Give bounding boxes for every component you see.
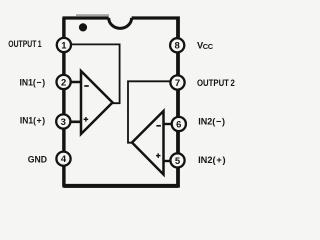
pin 2 circle	[57, 75, 71, 89]
pin 6 circle	[172, 117, 186, 131]
svg-text:5: 5	[175, 156, 181, 167]
svg-text:2: 2	[61, 77, 66, 88]
label IN2(+) (pin 5)	[198, 155, 226, 165]
scan shadow artifact above top edge	[76, 14, 109, 16]
wire U1 output feedback loop to pin 1	[70, 44, 120, 103]
svg-text:7: 7	[175, 78, 180, 89]
svg-text:IN2( − ): IN2( − )	[198, 116, 225, 126]
pin 7 circle	[170, 75, 184, 89]
label OUTPUT 1 (pin 1)	[8, 39, 41, 49]
wire pin5 to U2 non-inverting input	[164, 160, 172, 162]
svg-text:6: 6	[176, 119, 181, 130]
label IN2(-) (pin 6)	[198, 116, 225, 126]
svg-text:IN1( + ): IN1( + )	[20, 115, 45, 125]
wire pin6 to U2 inverting input	[164, 123, 172, 125]
pin 8 circle	[170, 38, 184, 52]
IC package body U1 (DIP-8 outline with top notch)	[64, 18, 179, 186]
pin 1 dot indicator	[79, 23, 87, 31]
wire pin2 to U1 inverting input	[64, 81, 81, 84]
U2 plus input marker	[156, 153, 161, 158]
wire U2 output feedback loop to pin 7	[128, 81, 172, 142]
svg-text:8: 8	[175, 41, 180, 52]
svg-text:3: 3	[61, 117, 66, 128]
label OUTPUT 2 (pin 7)	[197, 78, 235, 88]
svg-text:4: 4	[61, 154, 67, 165]
op-amp U1 (triangle pointing right)	[81, 71, 113, 134]
U1 minus input marker	[84, 85, 89, 87]
svg-text:IN2( + ): IN2( + )	[198, 155, 226, 165]
svg-text:VCC: VCC	[197, 40, 214, 51]
svg-text:1: 1	[61, 40, 67, 51]
wire right pin rail	[176, 18, 179, 186]
notch (pin-1 end indicator arc)	[109, 18, 132, 28]
svg-text:OUTPUT 1: OUTPUT 1	[8, 39, 41, 49]
op-amp U2 (triangle pointing left)	[132, 111, 164, 175]
svg-text:GND: GND	[28, 154, 47, 164]
label IN1(-) (pin 2)	[20, 77, 46, 87]
U2 minus input marker	[156, 125, 161, 127]
wire left pin rail	[62, 18, 65, 186]
label IN1(+) (pin 3)	[20, 115, 45, 125]
pin 1 circle	[57, 38, 71, 52]
label GND (pin 4)	[28, 154, 47, 164]
label VCC (pin 8)	[197, 40, 214, 51]
pin 4 circle	[56, 152, 70, 166]
U1 plus input marker	[84, 117, 89, 122]
wire pin3 to U1 non-inverting input	[64, 121, 81, 124]
pin 5 circle	[170, 153, 184, 167]
pin 3 circle	[56, 114, 70, 128]
svg-text:IN1( − ): IN1( − )	[20, 77, 46, 87]
svg-text:OUTPUT 2: OUTPUT 2	[197, 78, 235, 88]
